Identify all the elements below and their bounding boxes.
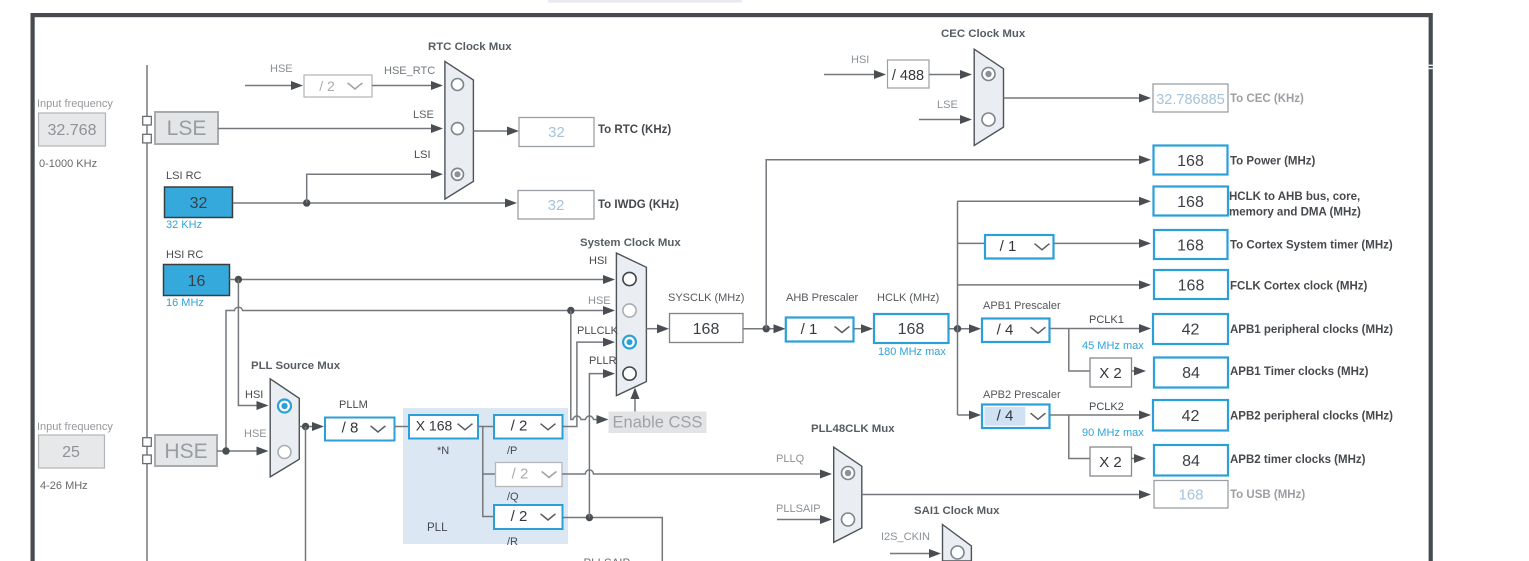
wire HSE riser to system mux (hop over HSI drop) [226, 307, 603, 451]
AHB prescaler dropdown /1 [786, 318, 854, 342]
wire X2 to APB1 timer box [1132, 370, 1135, 372]
svg-text:Input frequency: Input frequency [37, 421, 113, 433]
PLL xN dropdown X 168 [409, 415, 478, 439]
wire bus to APB2 [958, 414, 970, 416]
svg-text:4-26 MHz: 4-26 MHz [40, 480, 88, 492]
svg-text:32: 32 [548, 124, 565, 141]
svg-text:HSE: HSE [164, 440, 207, 463]
wire HSI RC to system mux [230, 279, 604, 281]
svg-text:168: 168 [898, 321, 925, 338]
sysmux radio HSI [623, 272, 636, 285]
SYSCLK value box 168 [670, 314, 744, 343]
svg-text:PLLM: PLLM [339, 399, 368, 411]
CEC mux radio LSE [982, 113, 995, 126]
svg-text:SAI1 Clock Mux: SAI1 Clock Mux [914, 505, 1000, 517]
svg-text:PLL48CLK Mux: PLL48CLK Mux [811, 423, 895, 435]
svg-text:*N: *N [437, 445, 449, 457]
HSI RC box 16 [164, 265, 230, 296]
wire /P to PLLCLK riser [563, 342, 604, 426]
HCLK value box 168 [874, 314, 949, 343]
wire HCLK distribution bus [957, 201, 959, 415]
pll48 radio PLLSAIP [842, 513, 855, 526]
svg-text:Input frequency: Input frequency [37, 98, 113, 110]
wire bus to HCLK AHB output [958, 200, 1140, 202]
svg-text:45 MHz max: 45 MHz max [1082, 340, 1144, 352]
wire LSI to IWDG [233, 202, 505, 204]
top toolbar remnant bar [548, 0, 742, 3]
APB2 timer multiplier X 2 [1090, 447, 1132, 476]
svg-text:/ 2: / 2 [511, 508, 528, 525]
To CEC value box 32.786885 [1153, 84, 1228, 112]
wire css branch (hops over pll risers) [571, 311, 597, 420]
RTC mux radio HSE_RTC [452, 79, 464, 91]
node PLLR branch [586, 514, 593, 521]
HCLK AHB value box 168 [1154, 187, 1229, 216]
svg-text:32.786885: 32.786885 [1156, 92, 1225, 108]
Cortex prescaler dropdown /1 [985, 235, 1054, 259]
wire HSI to /488 divider [824, 74, 874, 76]
PLL48CLK mux body [834, 447, 862, 542]
svg-text:32 KHz: 32 KHz [166, 219, 202, 231]
svg-text:X 2: X 2 [1099, 365, 1122, 382]
svg-text:X 168: X 168 [416, 418, 453, 434]
CEC mux radio HSI selected [982, 68, 995, 81]
svg-text:PCLK2: PCLK2 [1089, 401, 1124, 413]
svg-text:HSE_RTC: HSE_RTC [384, 65, 435, 77]
svg-text:HSE: HSE [244, 428, 267, 440]
svg-text:memory and DMA (MHz): memory and DMA (MHz) [1229, 207, 1361, 219]
svg-text:180 MHz max: 180 MHz max [878, 346, 946, 358]
svg-text:/Q: /Q [507, 491, 519, 503]
wire /R to PLLR riser and down [563, 518, 663, 561]
svg-text:84: 84 [1182, 365, 1200, 382]
LSE oscillator box [155, 112, 218, 144]
To RTC value box 32 [519, 118, 594, 147]
svg-text:HSI: HSI [245, 389, 263, 401]
wire bus to /P [483, 426, 494, 428]
wire to power riser [766, 160, 1139, 329]
CEC clock mux body [974, 49, 1003, 145]
svg-text:/ 4: / 4 [997, 322, 1014, 339]
wire bus to /Q [483, 473, 496, 475]
svg-text:PLLCLK: PLLCLK [577, 325, 619, 337]
pllmux radio HSI selected [278, 400, 291, 413]
svg-text:LSI RC: LSI RC [166, 170, 202, 182]
svg-text:25: 25 [62, 444, 80, 461]
svg-text:PLLSAIP: PLLSAIP [776, 503, 821, 515]
frame notch marks [1429, 65, 1433, 66]
svg-text:To Power (MHz): To Power (MHz) [1230, 156, 1316, 168]
PLLM dropdown /8 [325, 418, 395, 441]
svg-text:PLLQ: PLLQ [776, 453, 805, 465]
PLL /Q dropdown /2 disabled [496, 463, 563, 487]
wire /Q to PLL48 mux (hop over PLLR riser) [562, 470, 820, 474]
pll48 radio PLLQ selected [842, 467, 855, 480]
svg-text:To RTC (KHz): To RTC (KHz) [598, 124, 671, 136]
svg-text:AHB Prescaler: AHB Prescaler [786, 292, 858, 304]
node LSI branch [303, 199, 310, 206]
wire xN to dividers bus [478, 427, 494, 517]
svg-text:APB1 Prescaler: APB1 Prescaler [983, 300, 1061, 312]
svg-text:FCLK Cortex clock (MHz): FCLK Cortex clock (MHz) [1230, 281, 1368, 293]
wire APB2 to PCLK2 [1050, 414, 1140, 416]
wire pll mux to PLLM [299, 426, 312, 428]
svg-text:42: 42 [1182, 322, 1200, 339]
svg-text:168: 168 [693, 321, 720, 338]
svg-text:APB1 Timer clocks (MHz): APB1 Timer clocks (MHz) [1230, 366, 1369, 378]
svg-text:HSE: HSE [270, 63, 293, 75]
APB2 prescaler dropdown /4 highlighted [982, 405, 1050, 429]
PLL /R dropdown /2 [494, 505, 563, 529]
PLL source mux body [270, 379, 299, 477]
wire sysmux to SYSCLK box [646, 328, 657, 330]
RTC mux radio LSE [452, 123, 464, 135]
APB1 timer multiplier X 2 [1090, 358, 1132, 387]
svg-text:32: 32 [548, 197, 565, 214]
svg-text:/ 2: / 2 [511, 418, 528, 435]
svg-text:RTC Clock Mux: RTC Clock Mux [428, 41, 512, 53]
wire PLLI2S riser down [305, 427, 307, 561]
svg-text:90 MHz max: 90 MHz max [1082, 427, 1144, 439]
wire PLLSAIP to PLL48 mux [777, 519, 820, 521]
RTC mux radio LSI selected [452, 168, 464, 180]
svg-text:168: 168 [1178, 278, 1205, 295]
wire LSE to RTC mux [218, 128, 431, 130]
wire APB2 branch to X2 [1069, 415, 1090, 459]
svg-text:To USB (MHz): To USB (MHz) [1230, 489, 1305, 501]
svg-text:HSI RC: HSI RC [166, 249, 203, 261]
LSE input frequency box 32.768 [39, 113, 106, 146]
svg-text:/ 1: / 1 [1000, 238, 1017, 255]
APB1 prescaler dropdown /4 [982, 319, 1050, 343]
svg-text:/ 1: / 1 [801, 321, 818, 338]
svg-text:/P: /P [507, 445, 517, 457]
HSE pin squares [143, 438, 152, 447]
wire PLL48 mux to USB box [862, 494, 1139, 496]
wire cortex prescaler to timer box [1054, 242, 1140, 244]
wire APB1 branch to X2 [1069, 329, 1090, 372]
svg-text:I2S_CKIN: I2S_CKIN [881, 531, 930, 543]
svg-text:/R: /R [507, 536, 518, 548]
svg-text:/ 4: / 4 [997, 408, 1014, 425]
Enable CSS button [609, 412, 707, 434]
wire PLLM to xN [395, 426, 410, 428]
wire bus to FCLK [958, 284, 1140, 286]
wire LSI branch to RTC mux [307, 174, 431, 203]
wire HCLK to APB1 [949, 328, 970, 330]
sai1 radio I2S_CKIN [951, 546, 964, 559]
svg-text:CEC Clock Mux: CEC Clock Mux [941, 28, 1026, 40]
RTC clock mux body [445, 61, 474, 199]
wire bus to cortex prescaler [958, 242, 986, 244]
sysmux radio HSE [623, 304, 636, 317]
svg-text:168: 168 [1177, 194, 1204, 211]
svg-text:PLLR: PLLR [589, 355, 617, 367]
diagram frame border left [31, 13, 35, 561]
svg-text:Enable CSS: Enable CSS [613, 414, 703, 432]
wire SYSCLK to AHB prescaler [743, 328, 774, 330]
wire PLLR riser [589, 374, 603, 518]
svg-text:LSE: LSE [937, 99, 958, 111]
wire Enable CSS to mux [634, 399, 636, 412]
RTC HSE divider dropdown /2 [304, 75, 372, 97]
svg-text:168: 168 [1177, 238, 1204, 255]
svg-text:/ 2: / 2 [319, 78, 335, 94]
node HSI branch [235, 276, 242, 283]
svg-text:APB2 Prescaler: APB2 Prescaler [983, 389, 1061, 401]
svg-text:16 MHz: 16 MHz [166, 297, 204, 309]
svg-text:/ 488: / 488 [892, 68, 924, 84]
svg-text:168: 168 [1177, 153, 1204, 170]
svg-text:HSE: HSE [588, 295, 611, 307]
svg-text:/ 2: / 2 [512, 466, 529, 483]
svg-text:LSI: LSI [414, 149, 431, 161]
wire AHB prescaler to HCLK [854, 328, 862, 330]
wire X2 to APB2 timer box [1132, 458, 1135, 460]
APB2 peripheral value box 42 [1153, 400, 1228, 431]
svg-text:To IWDG (KHz): To IWDG (KHz) [598, 199, 679, 211]
PLL /P dropdown /2 [494, 415, 563, 439]
svg-text:HCLK to AHB bus, core,: HCLK to AHB bus, core, [1229, 191, 1360, 203]
node HSE branch [222, 447, 229, 454]
svg-text:To CEC (KHz): To CEC (KHz) [1230, 93, 1304, 105]
wire /488 to CEC mux [929, 74, 960, 76]
APB1 peripheral value box 42 [1153, 314, 1228, 344]
svg-text:PLL Source Mux: PLL Source Mux [251, 360, 341, 372]
CEC divider box /488 [888, 60, 930, 88]
To Power value box 168 [1154, 146, 1228, 175]
svg-text:168: 168 [1178, 487, 1203, 504]
PLL panel [403, 408, 568, 544]
wire LSE to CEC mux [919, 119, 960, 121]
To USB value box 168 [1154, 481, 1228, 509]
input rail [146, 65, 148, 561]
node HSE css branch [567, 307, 574, 314]
svg-text:32: 32 [190, 195, 208, 212]
wire RTC mux to RTC box [473, 130, 507, 132]
wire HSE to pll mux [217, 450, 257, 452]
wire HSI branch down to PLL source mux [238, 280, 256, 406]
diagram frame border top [31, 13, 1433, 17]
wire /2 to RTC mux [372, 85, 431, 87]
svg-text:32.768: 32.768 [48, 122, 97, 139]
node HCLK bus junction [954, 325, 961, 332]
svg-text:/ 8: / 8 [342, 420, 359, 437]
svg-text:PCLK1: PCLK1 [1089, 314, 1124, 326]
svg-text:HCLK (MHz): HCLK (MHz) [877, 292, 939, 304]
wire I2S_CKIN to SAI1 mux [890, 553, 929, 555]
SAI1 clock mux body (cut) [943, 525, 972, 561]
svg-text:SYSCLK (MHz): SYSCLK (MHz) [668, 292, 744, 304]
To IWDG value box 32 [518, 191, 594, 220]
node SYSCLK power branch [763, 325, 770, 332]
svg-text:APB1 peripheral clocks (MHz): APB1 peripheral clocks (MHz) [1230, 324, 1393, 336]
LSE pin squares [143, 116, 152, 125]
wire APB1 to PCLK1 [1050, 328, 1140, 330]
svg-text:System Clock Mux: System Clock Mux [580, 237, 681, 249]
svg-text:84: 84 [1182, 453, 1200, 470]
svg-text:LSE: LSE [413, 109, 434, 121]
system clock mux body [616, 253, 646, 396]
sysmux radio PLLCLK selected [623, 336, 636, 349]
svg-text:HSI: HSI [851, 54, 869, 66]
HSE input frequency box 25 [39, 435, 105, 468]
LSI RC box 32 [165, 187, 233, 218]
wire CEC mux to CEC box [1004, 97, 1140, 99]
svg-text:16: 16 [188, 273, 206, 290]
wire HSE to /2 divider [245, 85, 291, 87]
pllmux radio HSE [278, 446, 291, 459]
svg-text:To Cortex System timer (MHz): To Cortex System timer (MHz) [1230, 240, 1393, 252]
svg-text:APB2 peripheral clocks (MHz): APB2 peripheral clocks (MHz) [1230, 411, 1393, 423]
HSE oscillator box [155, 435, 217, 466]
APB2 timer value box 84 [1154, 445, 1228, 476]
APB1 timer value box 84 [1154, 358, 1228, 388]
svg-text:APB2 timer clocks (MHz): APB2 timer clocks (MHz) [1230, 454, 1366, 466]
FCLK value box 168 [1154, 270, 1228, 299]
svg-text:LSE: LSE [167, 117, 207, 140]
node PLLI2S branch [302, 423, 309, 430]
svg-text:0-1000 KHz: 0-1000 KHz [39, 158, 97, 170]
To Cortex value box 168 [1154, 230, 1228, 259]
svg-text:42: 42 [1182, 408, 1200, 425]
sysmux radio PLLR [623, 367, 636, 380]
svg-text:HSI: HSI [589, 255, 607, 267]
diagram frame border right [1429, 13, 1433, 561]
svg-text:PLL: PLL [427, 522, 448, 534]
svg-text:X 2: X 2 [1099, 454, 1122, 471]
